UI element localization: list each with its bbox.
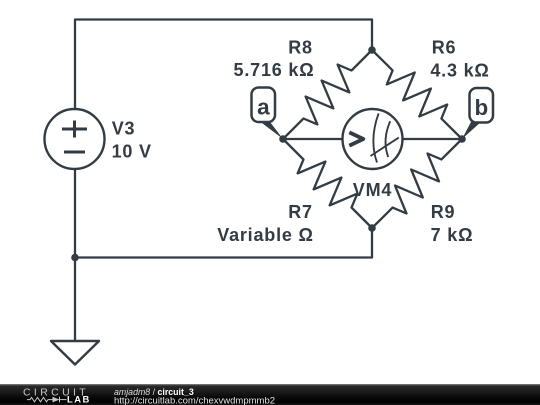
logo resistor-diode line [27,397,67,403]
resistor R7 [283,139,372,228]
voltage source V3 [45,109,105,169]
resistor R9 [372,139,462,228]
ground [51,341,99,365]
node flag b [462,88,493,139]
resistor R6 [372,50,462,139]
wire voltmeter to b [402,138,462,140]
resistor R8 [283,50,372,139]
node a junction [279,135,287,143]
svg-text:LAB: LAB [67,394,91,405]
wire bottom horizontal [75,228,372,258]
wire top rail [75,20,372,140]
wire bottom rail [74,139,76,341]
node b junction [458,135,466,143]
footer bar [0,384,540,405]
svg-text:http://circuitlab.com/chexvwdm: http://circuitlab.com/chexvwdmpmmb2 [114,395,275,405]
node bottom junction [368,224,376,232]
wire a to voltmeter [283,138,343,140]
node flag a [252,88,284,140]
voltmeter VM4 [343,109,403,169]
node top junction [368,46,376,54]
node left junction [71,254,79,262]
